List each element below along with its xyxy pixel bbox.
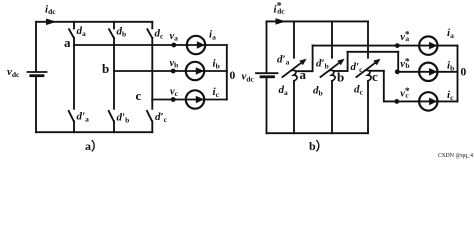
svg-text:i*dc: i*dc (274, 1, 286, 16)
wire: leg c bottom segment (151, 121, 153, 132)
svg-text:v*c: v*c (400, 87, 410, 100)
svg-text:a: a (64, 35, 71, 50)
wire: node b horizontal to pole riser (334, 70, 347, 72)
svg-text:db: db (117, 26, 127, 39)
wire: phase b output line (114, 70, 227, 72)
svg-text:dc: dc (155, 28, 165, 41)
svg-text:vc: vc (170, 87, 179, 99)
svg-text:ia: ia (447, 27, 454, 40)
arrow head inside current source i_a (b) (429, 42, 437, 50)
wire: phase b output line (b) (396, 71, 458, 73)
wire: top rail of b (267, 20, 369, 22)
switch d'_b blade arrow shaft (321, 63, 340, 77)
wire: right rail of a (node 0) (226, 45, 228, 100)
wire: leg a upper stub (b) (293, 21, 295, 57)
wire: pole dropper of phase c (383, 71, 385, 102)
arrow head of i*_dc on top rail (b) (276, 18, 287, 24)
current source i_c circle (186, 90, 204, 108)
battery Vdc long plate (b) (256, 72, 278, 74)
wire: bottom rail of b (267, 132, 369, 134)
arrow head of switch d'_b (b) (337, 59, 344, 65)
svg-text:a: a (300, 67, 307, 82)
wire: leg b lower stub (b) (331, 81, 333, 133)
svg-text:ib: ib (213, 58, 220, 71)
current source i_a circle (187, 36, 205, 54)
svg-text:dc: dc (354, 84, 364, 97)
svg-text:b: b (102, 61, 109, 76)
svg-text:d′c: d′c (351, 61, 364, 74)
wire: phase b upper jog line (348, 51, 399, 53)
wire: phase c output line (b) (384, 100, 458, 102)
wire: phase b drop to output level (397, 52, 399, 72)
wire: leg a bottom segment (73, 121, 75, 132)
svg-text:ia: ia (209, 29, 216, 42)
svg-text:idc: idc (45, 4, 56, 16)
wire: leg c upper stub (b) (367, 21, 369, 57)
arrow head inside current source i_a (197, 41, 205, 49)
svg-text:va: va (170, 31, 179, 43)
wire: phase a output line (74, 44, 227, 46)
node v*_a junction dot (395, 43, 400, 48)
svg-text:c: c (136, 88, 142, 103)
svg-text:CSDN @qq_41: CSDN @qq_41 (438, 153, 474, 159)
svg-text:ic: ic (213, 86, 220, 99)
wire: leg c lower stub (151, 100, 153, 109)
wire: bottom rail of a (36, 131, 152, 133)
svg-text:b: b (337, 69, 344, 84)
node v*_b junction dot (395, 69, 400, 74)
svg-text:v*b: v*b (400, 57, 410, 70)
wire: leg a lower stub (b) (293, 81, 295, 133)
wire: leg b bottom segment (113, 121, 115, 132)
arrow head of i_dc on top rail (a) (46, 19, 57, 26)
switch d_c blade (147, 29, 152, 38)
node v_a junction dot (171, 43, 176, 48)
wire: right rail of b (node 0) (457, 46, 459, 102)
switch pivot curl of leg a (292, 70, 297, 81)
switch d'_c blade (147, 111, 152, 121)
wire: leg b middle segment (113, 38, 115, 71)
switch d'_c blade arrow shaft (357, 63, 376, 77)
wire: top rail of a (36, 21, 152, 23)
switch pivot curl of leg b (330, 70, 335, 81)
svg-text:d′a: d′a (77, 111, 90, 124)
svg-text:db: db (313, 85, 323, 98)
current source i_c circle (b) (419, 92, 437, 110)
switch pivot curl of leg c (366, 70, 371, 81)
wire: node c horizontal to pole dropper (370, 70, 384, 72)
switch d'_b blade (109, 111, 114, 121)
battery Vdc short plate (b) (261, 75, 274, 78)
switch d'_a blade (69, 111, 74, 121)
wire: leg a upper stub (73, 22, 75, 29)
wire: leg c middle segment (151, 38, 153, 100)
svg-text:0: 0 (230, 70, 236, 82)
svg-text:d′a: d′a (277, 54, 290, 67)
wire: pole riser of phase b (347, 52, 349, 71)
battery Vdc long plate (a) (28, 71, 47, 73)
wire: leg c lower stub (b) (367, 81, 369, 133)
wire: leg b lower stub (113, 71, 115, 109)
svg-text:da: da (279, 84, 289, 97)
svg-text:c: c (372, 69, 378, 84)
switch d'_a blade arrow shaft (283, 63, 302, 77)
arrow head inside current source i_b (b) (429, 68, 437, 76)
arrow head inside current source i_c (b) (429, 98, 437, 106)
current source i_b circle (186, 62, 204, 80)
svg-text:vb: vb (170, 58, 179, 70)
wire: leg c upper stub (151, 22, 153, 29)
svg-text:d′b: d′b (316, 58, 329, 71)
wire: left wire upper segment (b) (266, 21, 268, 71)
svg-text:0: 0 (461, 67, 467, 79)
wire: leg a middle segment (73, 38, 75, 45)
wire: leg a lower stub (73, 45, 75, 109)
wire: node a horizontal to pole riser (296, 70, 312, 72)
svg-text:v*a: v*a (400, 31, 410, 44)
svg-text:d′c: d′c (155, 111, 168, 124)
wire: left wire upper segment (a) (35, 22, 37, 71)
battery Vdc short plate (a) (31, 74, 43, 77)
wire: phase a output line (b) (313, 45, 458, 47)
switch d_b blade (109, 29, 114, 38)
node v*_c junction dot (394, 99, 399, 104)
current source i_a circle (b) (419, 36, 437, 54)
arrow head of switch d'_a (b) (299, 59, 306, 65)
arrow head inside current source i_b (196, 67, 204, 75)
svg-text:a）: a） (85, 138, 103, 153)
node v_b junction dot (171, 69, 176, 74)
switch d_a blade (69, 29, 74, 38)
wire: leg b upper stub (113, 22, 115, 29)
arrow head inside current source i_c (196, 96, 204, 104)
wire: left wire lower segment (b) (266, 78, 268, 133)
wire: left wire lower segment (a) (35, 77, 37, 132)
svg-text:da: da (77, 25, 87, 38)
svg-text:ib: ib (447, 60, 454, 73)
node v_c junction dot (171, 97, 176, 102)
svg-text:d′b: d′b (117, 112, 130, 125)
wire: pole riser of phase a (312, 46, 314, 72)
wire: leg b upper stub (b) (331, 21, 333, 57)
svg-text:ic: ic (447, 89, 454, 102)
svg-text:vdc: vdc (7, 66, 20, 79)
svg-text:b）: b） (309, 138, 328, 153)
svg-text:vdc: vdc (242, 71, 255, 84)
current source i_b circle (b) (419, 63, 437, 81)
wire: phase c output line (152, 99, 227, 101)
arrow head of switch d'_c (b) (373, 59, 380, 65)
